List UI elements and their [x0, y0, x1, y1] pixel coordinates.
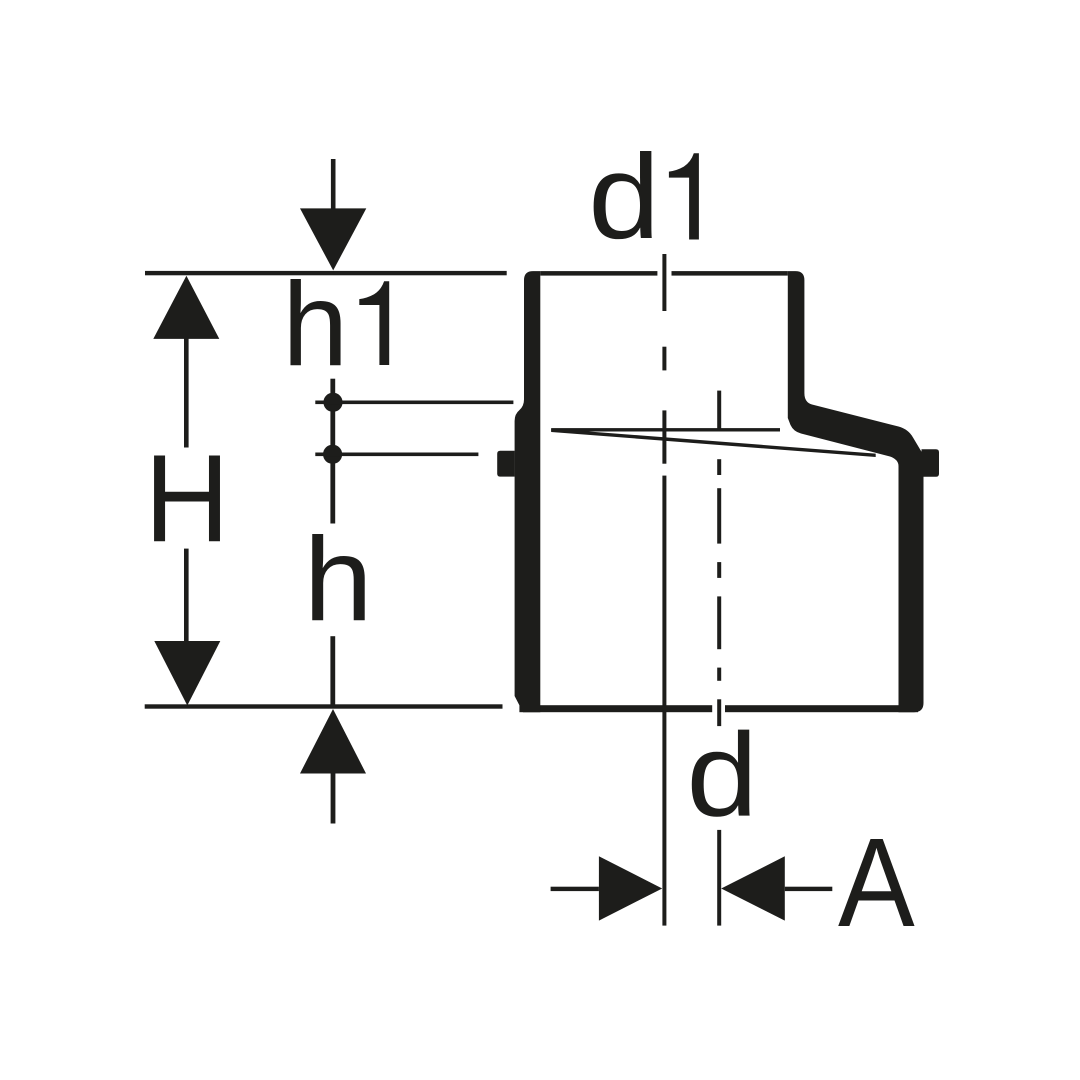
- A dimension left arrow: [599, 856, 662, 920]
- dot terminator h1: [323, 393, 342, 412]
- h arrow tail: [331, 773, 336, 823]
- d1 extension line (solid): [662, 476, 666, 926]
- fitting top edge right part: [672, 271, 788, 276]
- H dimension line lower segment: [184, 549, 189, 642]
- A dimension left tail: [551, 887, 599, 891]
- svg-text:d: d: [686, 709, 758, 841]
- d centerline dashes: [717, 391, 721, 431]
- h vertical line lower segment: [330, 636, 335, 708]
- right wall bead bump: [922, 449, 940, 477]
- dot terminator h: [323, 445, 342, 464]
- svg-text:h: h: [304, 513, 373, 646]
- fitting bottom edge left part: [519, 705, 712, 712]
- svg-text:d: d: [588, 130, 660, 264]
- h bottom arrow (points up): [300, 709, 366, 774]
- bottom dimension line: [145, 704, 503, 708]
- top dimension line: [145, 271, 507, 275]
- inner taper line upper (horizontal): [551, 428, 780, 431]
- A dimension right arrow: [721, 856, 785, 920]
- left wall socket bead bump: [497, 451, 515, 477]
- h1 top arrow: [331, 159, 336, 210]
- svg-text:A: A: [838, 812, 915, 953]
- right wall of fitting: [788, 271, 924, 712]
- fitting bottom edge right part: [725, 705, 918, 712]
- H dimension line upper segment: [184, 337, 189, 448]
- svg-text:H: H: [144, 428, 229, 568]
- reference line from h dot: [315, 453, 478, 457]
- H top arrow: [153, 276, 219, 339]
- fitting top edge left part: [540, 271, 657, 276]
- A dimension right tail: [785, 887, 833, 891]
- inner taper line lower (slanted): [551, 429, 876, 457]
- H bottom arrow: [154, 641, 220, 706]
- svg-text:h: h: [282, 259, 348, 391]
- h/h1 vertical dimension line upper segment: [330, 379, 335, 524]
- d1 centerline dashes: [662, 254, 666, 311]
- reference line from h1 dot: [315, 401, 513, 405]
- left wall of fitting: [515, 271, 541, 712]
